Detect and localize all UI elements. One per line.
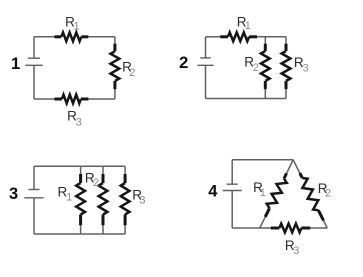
svg-text:1: 1: [245, 20, 251, 32]
svg-text:3: 3: [9, 185, 18, 203]
svg-text:1: 1: [66, 192, 72, 204]
svg-text:2: 2: [325, 188, 331, 200]
svg-text:1: 1: [74, 21, 80, 33]
svg-text:3: 3: [139, 194, 145, 206]
svg-text:4: 4: [208, 182, 218, 200]
svg-text:3: 3: [293, 245, 299, 257]
svg-text:2: 2: [179, 54, 188, 72]
svg-text:1: 1: [11, 55, 20, 73]
svg-text:3: 3: [76, 116, 82, 128]
svg-text:2: 2: [129, 67, 135, 79]
svg-text:2: 2: [93, 177, 99, 189]
svg-text:1: 1: [260, 187, 266, 199]
svg-text:3: 3: [303, 63, 309, 75]
svg-text:2: 2: [253, 62, 259, 74]
